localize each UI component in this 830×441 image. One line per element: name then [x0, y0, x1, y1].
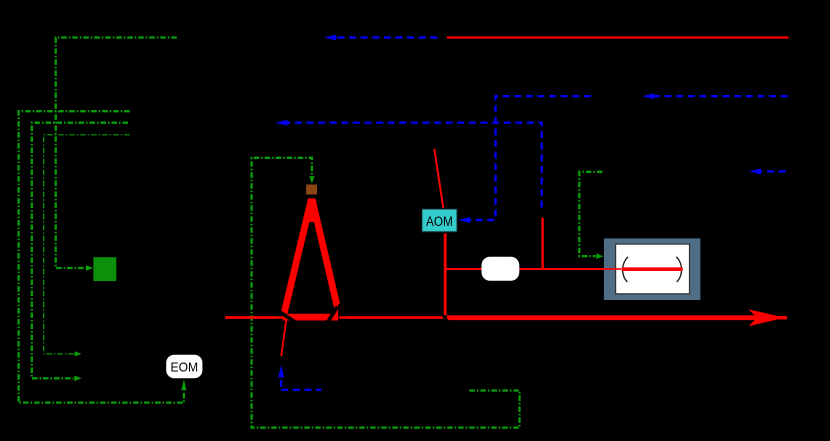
svg-text:AOM: AOM [426, 214, 453, 229]
svg-text:EOM: EOM [171, 359, 199, 374]
